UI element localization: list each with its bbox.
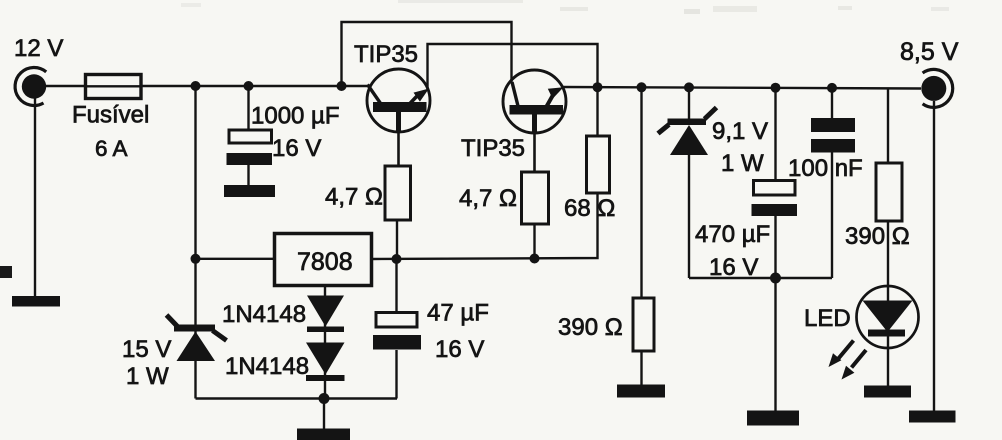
- svg-text:4,7 Ω: 4,7 Ω: [325, 184, 383, 211]
- label 9,1 V: [712, 118, 768, 145]
- label R3 390: [558, 314, 623, 341]
- label 1000 uF: [251, 103, 340, 130]
- svg-text:390 Ω: 390 Ω: [845, 223, 910, 250]
- label LED: [804, 305, 851, 332]
- ground center: [297, 429, 350, 440]
- svg-text:Fusível: Fusível: [72, 102, 149, 129]
- resistor R1 4.7: [385, 166, 411, 220]
- svg-text:15 V: 15 V: [122, 336, 171, 363]
- svg-text:12 V: 12 V: [14, 35, 63, 62]
- node output rail 5: [827, 83, 837, 93]
- transistor Q2 TIP35: [503, 70, 566, 133]
- svg-text:16 V: 16 V: [272, 135, 321, 162]
- node bottom rail: [319, 393, 330, 404]
- wire C1 drop: [247, 86, 249, 186]
- scan artifact streak top: [181, 0, 949, 14]
- svg-text:6 A: 6 A: [95, 136, 128, 161]
- diode D1 1N4148: [307, 296, 344, 333]
- wire R5 390 to LED: [887, 88, 889, 386]
- label 16 V C1: [272, 135, 321, 162]
- svg-text:LED: LED: [804, 305, 851, 332]
- svg-text:TIP35: TIP35: [461, 135, 525, 162]
- svg-text:47 µF: 47 µF: [427, 300, 489, 327]
- node rail A: [191, 81, 201, 91]
- input jack J1: [15, 68, 46, 106]
- node output rail 1: [593, 82, 603, 92]
- label R1 4,7: [325, 184, 383, 211]
- svg-text:16 V: 16 V: [709, 254, 758, 281]
- zener D4 9.1V: [658, 108, 717, 156]
- label 16 V C3: [709, 254, 758, 281]
- wire Q1 base loop (outer top): [342, 22, 512, 86]
- svg-text:1N4148: 1N4148: [225, 353, 309, 380]
- label 68: [564, 195, 615, 222]
- svg-text:470 µF: 470 µF: [695, 221, 770, 248]
- svg-text:16 V: 16 V: [435, 336, 484, 363]
- scan artifact dash left edge: [0, 266, 12, 278]
- wire Q1 emitter to output node (inner top): [428, 44, 598, 136]
- zener D3 15V: [167, 315, 227, 361]
- label 470 uF: [695, 221, 770, 248]
- fuse F1: [86, 75, 142, 99]
- wire center ground drop: [323, 399, 325, 430]
- label 100 nF: [788, 155, 863, 182]
- transistor Q1 TIP35: [367, 69, 430, 132]
- svg-text:100 nF: 100 nF: [788, 155, 863, 182]
- node rail C: [337, 81, 347, 91]
- resistor R68: [587, 136, 610, 193]
- wire input jack ground drop: [34, 97, 36, 297]
- wire C2 47uF leads: [395, 259, 397, 399]
- resistor R2 4.7: [522, 172, 549, 224]
- diode D2 1N4148: [306, 343, 345, 382]
- label TIP35 Q2: [461, 135, 525, 162]
- svg-text:1 W: 1 W: [126, 363, 169, 390]
- node output rail 2: [637, 82, 647, 92]
- resistor R5 390: [876, 163, 902, 221]
- wire R2 leads: [533, 132, 536, 259]
- svg-text:1N4148: 1N4148: [222, 301, 306, 328]
- wire 7808 output row: [196, 193, 598, 259]
- wire C4 100nF leads: [831, 88, 833, 278]
- wire output rail: [562, 87, 921, 89]
- label 47 uF: [427, 300, 489, 327]
- capacitor C1 1000uF plates: [227, 130, 273, 165]
- node rail B: [244, 81, 254, 91]
- node output rail 3: [684, 82, 694, 92]
- ground R3: [617, 385, 665, 398]
- label 15 V: [122, 336, 171, 363]
- label 1 W D3: [126, 363, 169, 390]
- svg-text:68 Ω: 68 Ω: [564, 195, 615, 222]
- label 1 W D4: [721, 150, 764, 177]
- svg-text:9,1 V: 9,1 V: [712, 118, 768, 145]
- node R2 bottom: [530, 254, 540, 264]
- LED D5: [857, 286, 919, 348]
- label D2: [225, 353, 309, 380]
- svg-text:7808: 7808: [297, 248, 353, 276]
- label R2 4,7: [459, 185, 517, 212]
- LED light arrow 2: [842, 350, 867, 380]
- ground C3: [747, 411, 799, 426]
- svg-text:8,5 V: 8,5 V: [900, 38, 959, 66]
- wire diode chain vertical: [324, 286, 326, 399]
- ground LED: [864, 386, 911, 398]
- LED light arrow 1: [829, 341, 854, 368]
- label R5 390: [845, 223, 910, 250]
- svg-text:TIP35: TIP35: [354, 41, 418, 68]
- regulator U1 7808: [275, 234, 372, 286]
- resistor R3 390: [633, 298, 654, 351]
- label TIP35 Q1: [354, 41, 418, 68]
- label Fusivel: [72, 102, 149, 129]
- node output rail 4: [771, 83, 781, 93]
- svg-text:4,7 Ω: 4,7 Ω: [459, 185, 517, 212]
- wire 470uF bottom loop: [689, 277, 832, 279]
- ground output: [909, 411, 956, 423]
- svg-text:1000 µF: 1000 µF: [251, 103, 340, 130]
- ground input: [12, 296, 60, 307]
- capacitor C4 100nF: [811, 118, 855, 153]
- capacitor C3 470uF: [752, 181, 798, 217]
- node C3 bottom: [770, 273, 781, 284]
- label 16 V C2: [435, 336, 484, 363]
- wire output jack ground drop: [933, 101, 935, 411]
- ground C1: [224, 185, 275, 197]
- label 12 V: [14, 35, 63, 62]
- wire bottom rail: [196, 397, 398, 399]
- node U1 output: [392, 254, 402, 264]
- wire R3 390 drop: [640, 87, 642, 385]
- label 8,5 V: [900, 38, 959, 66]
- capacitor C2 47uF: [373, 313, 421, 350]
- node U1 input: [191, 254, 201, 264]
- wire D4 zener drop: [688, 87, 690, 278]
- svg-text:390 Ω: 390 Ω: [558, 314, 623, 341]
- svg-text:1 W: 1 W: [721, 150, 764, 177]
- wire input rail: [44, 85, 368, 87]
- output jack J2: [921, 69, 952, 107]
- wire R1 leads: [397, 131, 399, 259]
- label 6 A: [95, 136, 128, 161]
- label D1: [222, 301, 306, 328]
- wire left vertical bus: [194, 86, 196, 399]
- wire C3 470uF leads: [774, 88, 776, 411]
